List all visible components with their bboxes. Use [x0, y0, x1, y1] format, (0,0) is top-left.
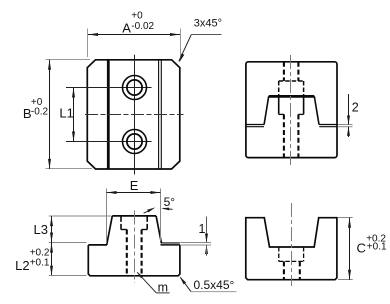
front view boss left slant	[107, 216, 113, 245]
svg-text:+0.1: +0.1	[30, 257, 50, 268]
side section boss top thick line	[269, 95, 315, 98]
dimension A extension lines	[87, 29, 89, 58]
end view hole hidden lines	[283, 261, 285, 279]
hole 1 bore	[127, 80, 142, 95]
dimension B extension lines	[46, 59, 91, 61]
svg-text:L1: L1	[59, 105, 73, 120]
svg-text:-0.2: -0.2	[31, 107, 49, 118]
dimension L3 extension lines	[49, 215, 111, 217]
front view seat lines right	[161, 242, 180, 244]
front view counterbore hidden lines	[120, 216, 122, 230]
dimension 2 line with arrows	[348, 94, 350, 124]
side section hole hidden lines	[283, 62, 285, 81]
thick groove edge line	[107, 60, 110, 169]
hole center line lower	[66, 141, 152, 143]
svg-text:2: 2	[352, 101, 359, 115]
hole 1 counterbore	[123, 76, 147, 100]
vertical centerline top view	[134, 55, 136, 175]
dimension A line with arrows	[88, 34, 180, 36]
dimension 1 extension lines	[181, 242, 212, 244]
end view outline	[246, 218, 337, 280]
front view centerline	[134, 211, 136, 284]
hole center line upper	[66, 87, 152, 89]
dimension C line with arrows	[349, 218, 351, 280]
hole 2 counterbore	[123, 130, 147, 154]
hole 2 bore	[127, 134, 142, 149]
svg-text:-0.02: -0.02	[131, 21, 154, 32]
front view boss top	[112, 215, 156, 217]
svg-text:E: E	[130, 178, 139, 193]
svg-text:3x45°: 3x45°	[194, 18, 222, 30]
top view outline (plan, chamfered block)	[87, 60, 180, 169]
svg-text:1: 1	[199, 222, 206, 236]
front view hole hidden lines	[126, 230, 128, 276]
svg-text:A: A	[122, 21, 131, 36]
front view boss right slant	[156, 216, 161, 244]
dimension L2 line with arrows	[51, 243, 53, 276]
double thin edge lines	[158, 60, 160, 169]
side section outline	[246, 62, 337, 158]
svg-text:+0: +0	[131, 11, 143, 22]
svg-text:+0.1: +0.1	[367, 242, 387, 253]
angle 5 left arrow	[147, 207, 155, 212]
angle 5 right arrow	[163, 208, 173, 209]
side section boss left slant	[264, 96, 269, 124]
svg-text:5°: 5°	[164, 195, 176, 209]
svg-text:0.5x45°: 0.5x45°	[194, 278, 235, 292]
dimension L1 line with arrows	[73, 88, 75, 142]
side section centerline	[290, 55, 292, 166]
dimension L2 extension line bottom	[49, 275, 87, 277]
svg-text:L2: L2	[15, 258, 29, 273]
end view centerline	[291, 203, 293, 286]
dimension E extension lines	[106, 189, 108, 244]
dimension B line with arrows	[49, 60, 51, 169]
side section seat lines	[246, 124, 265, 126]
dimension E line with arrows	[107, 192, 161, 194]
front view base outline	[88, 245, 180, 276]
svg-text:L3: L3	[34, 222, 48, 237]
side section counterbore hidden lines	[279, 80, 304, 82]
svg-text:C: C	[357, 241, 366, 256]
front view base top line left	[88, 244, 107, 246]
dimension 2 extension lines	[338, 124, 353, 126]
dimension 1 line with arrows	[206, 217, 208, 243]
dimension C extension lines	[338, 217, 353, 219]
side section boss right slant	[314, 96, 319, 124]
horizontal middle centerline (dashed)	[85, 114, 184, 116]
end view T-slot counterbore hidden lines	[278, 247, 280, 261]
dimension L3 line with arrows	[51, 216, 53, 242]
